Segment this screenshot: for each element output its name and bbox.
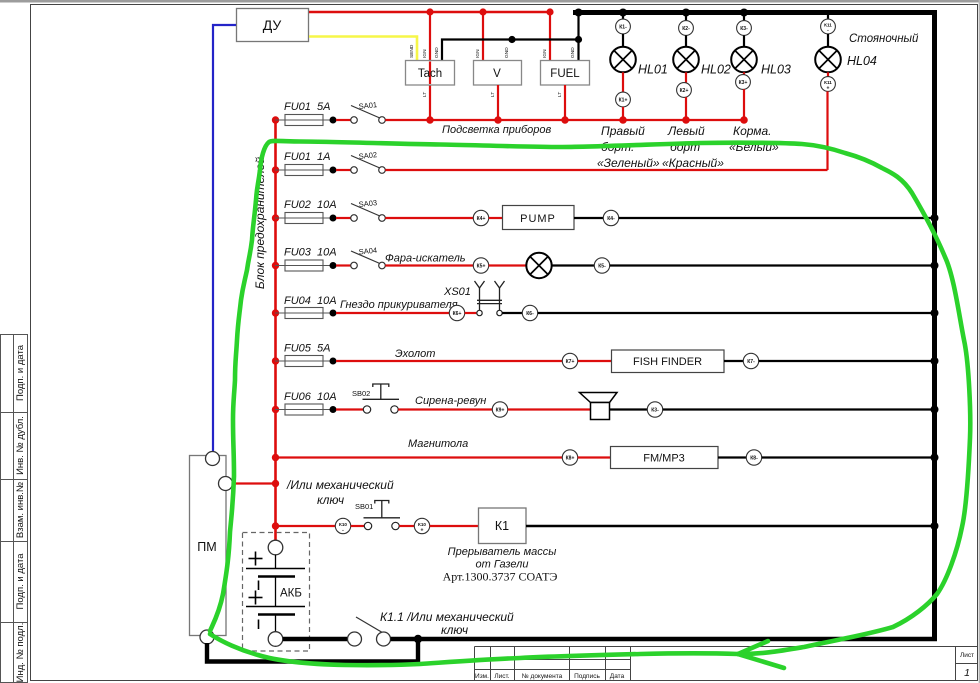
wire: fuse to SB02 [336, 408, 363, 410]
svg-text:FU03 10A: FU03 10A [284, 247, 337, 259]
gauge V box [474, 61, 522, 86]
node: GND bus at HL01 [619, 9, 627, 17]
node: bus at SB01 row [272, 522, 279, 529]
svg-text:GND: GND [504, 47, 510, 58]
node: lighting bus at HL02 [682, 116, 690, 124]
wire: K10+ to K1 [430, 525, 479, 527]
node: lighting bus at HL01 [619, 116, 627, 124]
terminal: PM right [219, 477, 233, 491]
annotation: green arrow barb lower [738, 654, 784, 668]
svg-text:К7-: К7- [747, 359, 755, 365]
svg-text:Инд. № подл.: Инд. № подл. [15, 623, 26, 683]
strip cell line 1 [1, 412, 28, 414]
terminal K3- [737, 21, 752, 36]
svg-text:SB02: SB02 [352, 389, 370, 398]
svg-text:Изм.: Изм. [475, 673, 489, 680]
horn (siren) symbol [580, 393, 618, 420]
wire: K1 to GND bus [526, 525, 934, 527]
svg-text:GND: GND [570, 47, 576, 58]
svg-text:LT: LT [422, 92, 428, 97]
svg-text:FU02 10A: FU02 10A [284, 199, 337, 211]
wire: fuse to SA02 [336, 169, 351, 171]
gauge Tach box [406, 61, 455, 86]
wire: yellow SEND wire [309, 37, 417, 61]
svg-text:К1.1 /Или механический: К1.1 /Или механический [380, 610, 514, 624]
wire: horn to K3- [610, 408, 648, 410]
node: bus at row8 (radio feed) [272, 454, 279, 461]
node: IGN bus corner at FUEL [546, 8, 553, 15]
wire: V IGN drop [482, 12, 484, 61]
wire: HL04 upper stem [827, 12, 829, 20]
wire: parking light feed row2 [385, 169, 827, 171]
terminal K9+ [492, 402, 507, 417]
node: GND bus at HL02 [682, 9, 690, 17]
wire: K10- to SB01 [351, 525, 365, 527]
svg-text:SB01: SB01 [355, 502, 373, 511]
svg-text:Подсветка приборов: Подсветка приборов [442, 124, 552, 136]
terminal K11+ [821, 77, 836, 92]
wire: FUEL LT drop [564, 85, 566, 120]
terminal K2+ [677, 83, 692, 98]
svg-text:Подп. и дата: Подп. и дата [15, 344, 26, 401]
svg-text:Магнитола: Магнитола [408, 438, 468, 450]
fuse block feed bus (red vertical) [274, 119, 277, 527]
fuse FU02 10A [275, 213, 337, 224]
wire: red to pump [385, 217, 473, 219]
svg-text:К9+: К9+ [496, 408, 505, 414]
title block mid line 2 [475, 669, 631, 671]
terminal K8- [746, 450, 761, 465]
svg-text:+: + [827, 86, 830, 92]
svg-text:FU04 10A: FU04 10A [284, 295, 337, 307]
svg-text:К10: К10 [418, 522, 426, 527]
svg-text:№ документа: № документа [522, 673, 563, 680]
terminal K5+ [473, 258, 488, 273]
wire: searchlight to K5- [552, 264, 595, 266]
label Правый борт. «Зеленый» [597, 124, 660, 170]
wire: red PM branch [231, 482, 276, 484]
svg-text:LT: LT [557, 92, 563, 97]
strip inner divider [13, 335, 15, 683]
node: bus at row5 [272, 309, 279, 316]
wire: right GND bus (thick) [932, 10, 937, 641]
wire: K9+ to horn [508, 408, 591, 410]
node: GND bus row4 [931, 262, 939, 270]
svg-text:SA04: SA04 [358, 246, 377, 257]
node: bus at row6 [272, 357, 279, 364]
svg-text:Лист.: Лист. [494, 673, 509, 680]
svg-text:«Зеленый»: «Зеленый» [597, 156, 660, 170]
wire: red to K6+ [336, 312, 449, 314]
wire: radio to K8- [718, 456, 746, 458]
wire: K8- to GND bus [762, 456, 934, 458]
sheet number box [955, 647, 957, 681]
terminal: battery + post [268, 540, 283, 555]
svg-text:К7+: К7+ [566, 359, 575, 365]
wire: FUEL GND drop [577, 12, 579, 61]
strip cell line 2 [1, 479, 28, 481]
wire: gauge GND link Tach-V-FUEL [442, 40, 579, 62]
wire: HL03 stem to lamp [743, 35, 745, 47]
wire: HL04 drop to parking light feed [826, 91, 828, 170]
wire: K7- to GND bus [759, 360, 934, 362]
svg-text:Сирена-ревун: Сирена-ревун [415, 395, 486, 407]
svg-text:Подп. и дата: Подп. и дата [15, 553, 26, 610]
svg-text:HL03: HL03 [761, 63, 791, 77]
svg-text:К2+: К2+ [680, 88, 689, 94]
svg-text:ДУ: ДУ [263, 17, 282, 33]
terminal K10- [335, 518, 350, 533]
terminal: battery - post [268, 632, 283, 647]
wire: red to K5+ [385, 264, 473, 266]
svg-text:FISH FINDER: FISH FINDER [633, 356, 702, 368]
node: bus at PM branch [272, 480, 279, 487]
terminal K3+ [736, 75, 751, 90]
svg-text:Прерыватель массы: Прерыватель массы [448, 546, 557, 558]
terminal K10+ [414, 518, 429, 533]
svg-text:Арт.1300.3737 СОАТЭ: Арт.1300.3737 СОАТЭ [443, 570, 558, 584]
label: /Или механический ключ [286, 478, 394, 507]
wire: PUMP to K4- [574, 217, 603, 219]
left margin strip outline [1, 335, 28, 683]
svg-text:К8-: К8- [750, 456, 758, 462]
svg-text:Инв. № дубл.: Инв. № дубл. [15, 416, 26, 475]
lamp HL02 [673, 47, 699, 73]
svg-text:IGN: IGN [475, 49, 481, 58]
terminal K7- [743, 353, 758, 368]
wire: HL01 drop to lighting bus [622, 107, 624, 120]
switch SA03 [351, 204, 386, 222]
svg-text:XS01: XS01 [443, 286, 471, 298]
svg-text:Фара-искатель: Фара-искатель [385, 253, 466, 265]
svg-text:IGN: IGN [422, 49, 428, 58]
wire: top GND bus (thick) [573, 10, 935, 15]
svg-text:К4+: К4+ [477, 216, 486, 222]
title block mid line 1 [475, 659, 631, 661]
node: bus top corner row1 [272, 116, 279, 123]
svg-text:HL01: HL01 [638, 63, 668, 77]
wire: instrument lighting bus row1 [385, 119, 744, 121]
wire: K3- to GND bus [663, 408, 934, 410]
svg-text:FU05 5A: FU05 5A [284, 343, 330, 355]
node: GND link at V [508, 36, 515, 43]
svg-text:PUMP: PUMP [520, 213, 556, 225]
node: GND at PM loop junction [414, 635, 422, 643]
wire: HL03 upper stem [743, 12, 745, 21]
svg-text:GND: GND [434, 47, 440, 58]
terminal K8+ [562, 450, 577, 465]
wire: bottom GND bus (thick) [391, 637, 938, 642]
label: К1.1 /Или механический ключ [380, 610, 514, 637]
battery cell 1 [246, 552, 305, 591]
svg-text:Корма.: Корма. [733, 124, 772, 138]
wire: HL02 upper stem [685, 12, 687, 21]
node: lighting bus end at HL03 [740, 116, 748, 124]
svg-text:Tach: Tach [418, 68, 442, 80]
svg-text:SA02: SA02 [358, 150, 377, 161]
switch K1.1 [348, 617, 391, 646]
svg-text:ПМ: ПМ [197, 540, 216, 554]
strip cell line 3 [1, 541, 28, 543]
fuse FU03 10A [275, 260, 337, 271]
svg-text:LT: LT [490, 92, 496, 97]
svg-text:V: V [493, 68, 501, 80]
wire: fish finder to K7- [724, 360, 743, 362]
label Корма. «Белый» [729, 124, 779, 154]
wire: K6- to GND bus [538, 312, 934, 314]
title block top line [475, 646, 979, 648]
remote control unit DU box [237, 9, 309, 42]
svg-text:FU06 10A: FU06 10A [284, 391, 337, 403]
label: Прерыватель массы от Газели [448, 546, 557, 571]
terminal K2- [679, 21, 694, 36]
svg-text:К3-: К3- [651, 408, 659, 414]
wire: HL02 red stem [685, 72, 687, 83]
wire: K5- to GND bus [610, 264, 934, 266]
lamp HL01 [610, 47, 636, 73]
device FISH FINDER [612, 350, 725, 373]
terminal K5- [594, 258, 609, 273]
wire: K8+ to radio [578, 456, 610, 458]
annotation: green arrow barb upper [738, 641, 768, 654]
wire: K7+ to fish finder [578, 360, 611, 362]
wire: HL01 upper stem [622, 12, 624, 20]
node: GND bus row5 [931, 309, 939, 317]
svg-text:HL04: HL04 [847, 54, 877, 68]
relay K1 box [479, 508, 527, 544]
svg-text:К3-: К3- [740, 26, 748, 32]
terminal K6+ [449, 305, 464, 320]
svg-text:К11: К11 [824, 80, 832, 85]
svg-text:IGN: IGN [542, 49, 548, 58]
wire: K4- to GND bus [619, 217, 934, 219]
svg-text:К2-: К2- [682, 26, 690, 32]
socket XS01 [475, 281, 505, 316]
fuse FU01 5A [275, 115, 337, 126]
node: bus at row2 [272, 166, 279, 173]
svg-text:К3+: К3+ [739, 80, 748, 86]
wire: K5+ to searchlight [489, 264, 527, 266]
node: row1 at V LT [494, 116, 501, 123]
terminal K3- (siren return) [647, 402, 662, 417]
terminal K4+ [473, 210, 488, 225]
pushbutton SB01 [364, 501, 401, 530]
node: bus at row4 [272, 262, 279, 269]
node: GND bus row7 [931, 406, 939, 414]
wire: PM bottom loop (thick) [207, 639, 418, 662]
terminal K7+ [562, 353, 577, 368]
gauge FUEL box [541, 61, 590, 86]
terminal K6- [522, 305, 537, 320]
svg-text:Гнездо прикуривателя: Гнездо прикуривателя [340, 299, 458, 311]
wire: HL03 drop to lighting bus [743, 89, 745, 120]
node: row1 at FUEL LT [561, 116, 568, 123]
annotation: green freehand loop [210, 141, 970, 665]
svg-text:SA01: SA01 [358, 100, 377, 111]
svg-text:/Или механический: /Или механический [286, 478, 394, 492]
svg-text:К1+: К1+ [619, 98, 628, 104]
wire: red bus stub to battery [274, 526, 277, 541]
wire: HL04 red stem [827, 72, 829, 77]
node: IGN bus at V [479, 8, 486, 15]
terminal: PM top [206, 452, 220, 466]
node: GND bus at HL03 [740, 9, 748, 17]
terminal K1- [616, 19, 631, 34]
wire: fuse to SA03 [336, 217, 351, 219]
svg-text:К1: К1 [495, 519, 509, 533]
svg-text:FU01 1A: FU01 1A [284, 151, 330, 163]
wire: K6+ to socket [465, 312, 477, 314]
fuse FU01 1A [275, 165, 337, 176]
node: IGN bus at Tach [426, 8, 433, 15]
svg-text:«Красный»: «Красный» [662, 156, 724, 170]
wire: Tach IGN/LT red vertical [429, 12, 431, 120]
wire: battery to K1.1 switch (thick GND) [283, 637, 348, 642]
wire: red to K8+ [276, 456, 563, 458]
svg-text:Взам. инв.№: Взам. инв.№ [15, 482, 26, 538]
node: GND bus row8 [931, 454, 939, 462]
wire: SB02 to K9+ [398, 408, 492, 410]
switch SA04 [351, 251, 386, 269]
svg-text:К8+: К8+ [566, 456, 575, 462]
svg-text:FUEL: FUEL [550, 68, 580, 80]
node: GND link at FUEL vertical [575, 36, 582, 43]
svg-text:К6-: К6- [526, 311, 534, 317]
svg-text:К5+: К5+ [477, 264, 486, 270]
fuse FU05 5A [275, 356, 337, 367]
terminal: PM bottom [200, 630, 214, 644]
svg-text:К4-: К4- [607, 216, 615, 222]
svg-text:1: 1 [964, 667, 970, 679]
wire: blue from DU to PM [213, 25, 236, 452]
svg-text:ключ: ключ [317, 493, 344, 507]
wire: fuse to SA01 [336, 119, 351, 121]
svg-text:Подпись: Подпись [574, 673, 600, 680]
strip cell line 4 [1, 622, 28, 624]
wire: fuse to SA04 [336, 264, 351, 266]
battery AKB dashed enclosure [243, 533, 310, 652]
svg-text:Эхолот: Эхолот [395, 348, 435, 360]
wire: HL01 stem to lamp [622, 34, 624, 47]
wire: HL02 drop to lighting bus [685, 97, 687, 120]
lamp HL04 [815, 47, 841, 73]
wire: V LT drop [497, 85, 499, 120]
svg-text:Лист: Лист [960, 652, 974, 659]
lamp: searchlight [526, 253, 551, 278]
wire: K4+ to PUMP [489, 217, 502, 219]
svg-text:FU01 5A: FU01 5A [284, 101, 330, 113]
motor PM box [190, 456, 227, 636]
wire: socket to K6- [502, 312, 522, 314]
label Левый борт «Красный» [662, 124, 724, 170]
terminal K4- [603, 210, 618, 225]
sheet top edge [0, 0, 980, 3]
node: row1 at Tach LT [426, 116, 433, 123]
switch SA01 [351, 106, 386, 124]
node: GND bus at FUEL [575, 9, 583, 17]
fuse FU04 10A [275, 308, 337, 319]
svg-text:Левый: Левый [667, 124, 705, 138]
node: GND bus row3 [931, 214, 939, 222]
terminal K1+ [616, 92, 631, 107]
svg-text:АКБ: АКБ [280, 588, 302, 600]
wire: HL04 stem to lamp [827, 34, 829, 47]
svg-text:Стояночный: Стояночный [849, 33, 919, 45]
svg-text:К5-: К5- [598, 264, 606, 270]
wire: FUEL IGN drop [549, 12, 551, 61]
node: bus at row7 [272, 406, 279, 413]
terminal K11- [821, 19, 836, 34]
node: GND bus at K1 row [931, 522, 939, 530]
wire: red top IGN bus [309, 11, 550, 14]
device FM/MP3 [611, 447, 719, 469]
wire: HL01 red stem [622, 72, 624, 92]
svg-text:Правый: Правый [601, 124, 645, 138]
svg-text:+: + [421, 528, 424, 534]
node: GND bus row6 [931, 357, 939, 365]
svg-text:FM/MP3: FM/MP3 [643, 453, 685, 465]
wire: HL03 red stem [743, 72, 745, 75]
node: bus at row3 [272, 214, 279, 221]
device PUMP [503, 206, 575, 230]
wire: red to K10- [276, 525, 336, 527]
wire: HL02 stem to lamp [685, 35, 687, 47]
svg-text:ключ: ключ [441, 623, 468, 637]
svg-text:К6+: К6+ [453, 311, 462, 317]
pushbutton SB02 [363, 384, 400, 413]
svg-text:SA03: SA03 [358, 198, 377, 209]
fuse FU06 10A [275, 404, 337, 415]
svg-text:HL02: HL02 [701, 63, 731, 77]
wire: red to K7+ [336, 360, 562, 362]
battery cell 2 [246, 577, 305, 632]
wire: SB01 to K10+ [399, 525, 414, 527]
svg-text:К1-: К1- [619, 25, 627, 31]
lamp HL03 [731, 47, 757, 73]
sheet right edge [979, 0, 980, 683]
svg-text:Дата: Дата [610, 673, 625, 680]
title block verticals [474, 647, 476, 681]
switch SA02 [351, 156, 386, 174]
svg-text:SEND: SEND [409, 44, 415, 58]
